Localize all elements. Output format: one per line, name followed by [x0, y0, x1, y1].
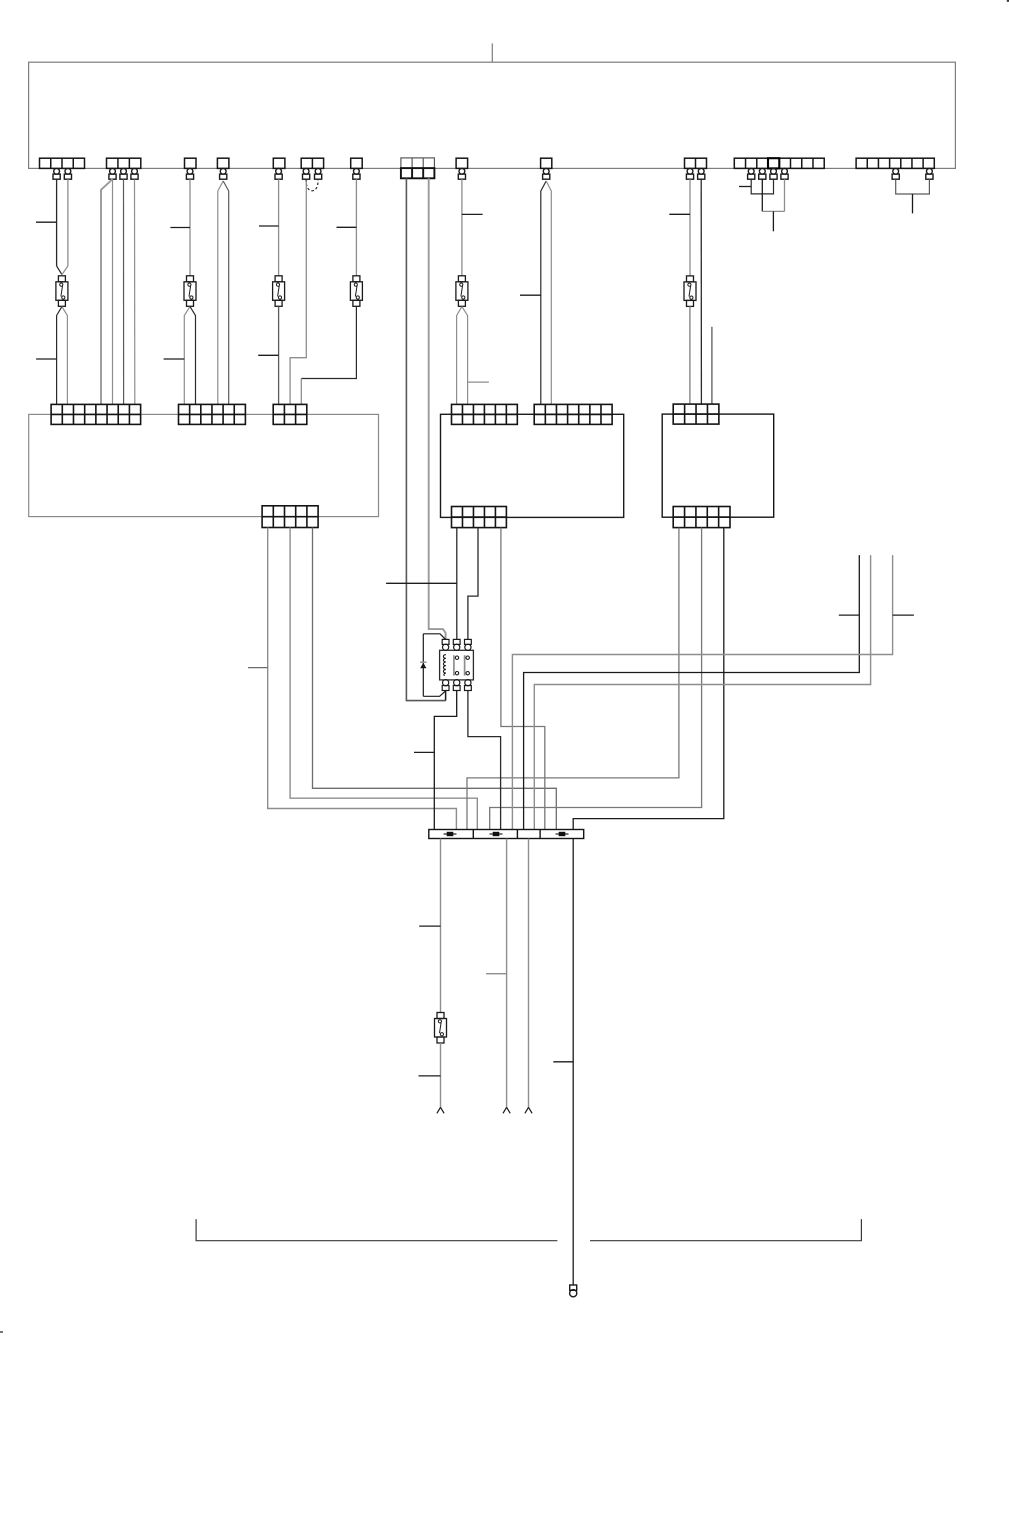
relay bottom pin 2	[453, 680, 460, 691]
relay bottom pin 3	[465, 680, 472, 691]
fusible link F1	[56, 276, 68, 307]
connector block G2 (3-way)	[107, 158, 141, 168]
pin R2-4	[892, 168, 899, 179]
relay block box 1	[29, 414, 379, 516]
ground bracket right	[590, 1219, 861, 1241]
label leader tick (F3 lower)	[258, 354, 278, 356]
relay bottom pin 1	[442, 680, 449, 691]
junction box 3	[662, 414, 774, 517]
wire D3 to junction strip	[290, 528, 477, 830]
wire G-col1 to relay pin2	[456, 528, 458, 640]
label leader tick (out4)	[553, 1061, 573, 1063]
relay contact 1	[454, 655, 459, 675]
label leader tick (feed 1)	[839, 614, 860, 616]
diode branch bottom	[423, 691, 445, 696]
label leader tick (F2 lower)	[164, 358, 185, 360]
relay pin4 bottom stub	[445, 691, 447, 701]
wire B1-1 down to relay pin4	[406, 178, 445, 700]
wire P2-2 to grid H col3	[700, 179, 702, 404]
connector grid C (3x2)	[273, 404, 307, 424]
connector grid E (6x2)	[452, 404, 518, 424]
junction box 2	[441, 414, 624, 517]
fusible link F2	[184, 276, 196, 307]
connector S3 (1-way)	[273, 158, 285, 168]
diode branch top	[423, 634, 445, 640]
wire relay pin5 to junction strip	[434, 691, 456, 830]
relay top pin 2	[453, 639, 460, 650]
R1 highlighted cavity 4	[768, 158, 779, 168]
pin P1-1	[303, 168, 310, 179]
label leader tick (out1 lower)	[419, 1075, 441, 1077]
label leader tick (out1 upper)	[419, 925, 440, 927]
relay top pin 1	[442, 639, 449, 650]
wire below F7	[440, 1043, 442, 1107]
pin S3	[275, 168, 282, 179]
pin R1-3	[759, 168, 766, 179]
wire S4 down to F4	[355, 179, 357, 276]
label leader tick (relay wire)	[414, 751, 434, 753]
label leader tick (D1)	[248, 667, 268, 669]
joint J3	[556, 832, 569, 836]
pin G1-3	[64, 168, 71, 179]
pin G2-2	[120, 168, 127, 179]
fusible link F5	[456, 276, 468, 307]
label leader tick gray (grid E)	[468, 381, 489, 383]
label leader tick (out2)	[486, 973, 507, 975]
fusible link F4	[350, 276, 362, 307]
P1 jumper loop (dashed)	[306, 179, 318, 191]
pin R1-4	[770, 168, 777, 179]
connector row R2 (7-way)	[856, 158, 934, 168]
label leader tick (S6 pair)	[520, 294, 541, 296]
pin R1-5	[781, 168, 788, 179]
splice mark 1	[437, 1107, 444, 1113]
engine room junction / fuse block (header box)	[29, 62, 956, 168]
wire P1 to grid C col2	[290, 182, 306, 405]
wire below F4 jog to grid C col3	[301, 306, 356, 378]
wire I3 to junction strip	[490, 528, 702, 830]
header box top tick	[491, 43, 493, 62]
wire relay pin6 to junction strip	[468, 691, 501, 830]
pin S1	[186, 168, 193, 179]
wire I1 to junction strip	[467, 528, 679, 830]
wire G1-3 down	[67, 179, 69, 266]
wire below F6 to grid H col2	[689, 306, 691, 404]
wire pair below F1 to grid A	[57, 307, 62, 405]
label leader tick (feed 3)	[893, 614, 914, 616]
splice mark 2	[503, 1107, 510, 1113]
pin P2-1	[686, 168, 693, 179]
pin R2-7	[926, 168, 933, 179]
wire R1 pin3 down	[761, 179, 763, 211]
stub from R1 join	[772, 211, 774, 231]
wire pair S6 to grid F	[541, 181, 546, 404]
label leader tick (F5 upper right)	[462, 213, 483, 215]
wire B1-2 down to relay pin1	[429, 178, 446, 639]
connector block B1 (3x2)	[401, 158, 435, 178]
connector S4 (1-way)	[351, 158, 363, 168]
wire S5 down to F5	[461, 179, 463, 276]
connector S1 (1-way)	[185, 158, 197, 168]
connector S5 (1-way)	[456, 158, 468, 168]
connector P2 (2-way)	[685, 158, 707, 168]
feed wire right 2	[534, 555, 870, 829]
relay top pin 3	[465, 639, 472, 650]
wire pair S2 to grid B	[218, 181, 223, 404]
wire D5 to junction strip	[313, 528, 557, 830]
label leader tick (F3 upper)	[259, 225, 279, 227]
wire strip out 3 down	[528, 839, 530, 1108]
connector grid F (7x2)	[534, 404, 612, 424]
label leader tick (F2 upper)	[170, 227, 190, 229]
label leader tick (R1)	[739, 186, 751, 188]
wire S1 down to F2	[189, 179, 191, 276]
connector grid B (6x2)	[179, 404, 246, 424]
fusible link F3	[273, 276, 285, 307]
pin S6	[543, 168, 550, 179]
wire strip out 4 (battery lead)	[572, 839, 574, 1286]
pin G2-3	[131, 168, 138, 179]
junction connector strip	[429, 830, 584, 839]
connector grid H (4x2)	[673, 404, 719, 424]
wire pair below F2 to grid B	[184, 307, 190, 405]
wire G2-1 down	[112, 179, 114, 404]
connector grid G (5x2)	[452, 507, 507, 528]
wire R1 pins 2-4 join	[751, 179, 773, 194]
page corner mark top-right	[1007, 0, 1009, 2]
relay contact 2	[465, 655, 470, 675]
pin G2-1	[109, 168, 116, 179]
feed wire right 1	[524, 555, 860, 829]
feed wire right 3	[512, 555, 892, 829]
ground bracket left	[196, 1219, 557, 1241]
connector grid D (5x2)	[262, 506, 318, 528]
wire pair converge to F1	[57, 266, 62, 275]
wire G2-2 down	[123, 179, 125, 404]
fuse F7	[435, 1013, 447, 1044]
relay U1 body	[440, 650, 474, 680]
joint J1	[444, 832, 457, 836]
label leader line (relay)	[386, 582, 457, 584]
diode D1	[420, 661, 427, 663]
joint J2	[490, 832, 503, 836]
pin S5	[458, 168, 465, 179]
wire P2-1 down to F6	[689, 179, 691, 276]
wire strip out 1 down	[440, 839, 442, 1013]
wire strip out 2 down	[506, 839, 508, 1108]
wire I5 to junction strip	[573, 528, 724, 830]
wire G2-3 down	[134, 179, 136, 404]
wire G2-1 diagonal branch	[101, 179, 113, 404]
fusible link F6	[684, 276, 696, 307]
stub from R2 join	[912, 194, 914, 213]
pin P2-2	[698, 168, 705, 179]
diode branch left wire	[422, 634, 424, 697]
label leader tick (F6 upper)	[669, 213, 690, 215]
wire G-col5 to junction strip	[501, 528, 545, 830]
wire S3 down to F3	[278, 179, 280, 276]
pin P1-2	[315, 168, 322, 179]
pin S4	[353, 168, 360, 179]
connector S6 (1-way)	[541, 158, 552, 168]
pin S2	[220, 168, 227, 179]
wire R1 pin5 down	[784, 179, 786, 211]
pin G1-2	[53, 168, 60, 179]
connector grid I (5x2)	[673, 507, 730, 528]
page edge mark bottom-left	[0, 1331, 3, 1333]
wire below F3 to grid C col1	[278, 306, 280, 404]
wire R1 pins 3-5 join	[762, 210, 784, 212]
stub wire to grid H col4	[711, 327, 713, 404]
wire R2 pins join	[896, 179, 930, 194]
wire G1-2 down	[56, 179, 58, 266]
connector block G1 (4-way)	[40, 158, 85, 168]
label leader tick (F4 upper)	[337, 226, 357, 228]
relay coil	[443, 655, 445, 676]
connector grid A (8x2)	[51, 404, 141, 424]
label leader tick (F1 lower)	[36, 358, 57, 360]
splice mark 3	[525, 1107, 532, 1113]
wire D1 to junction strip	[268, 528, 457, 830]
connector S2 (1-way)	[217, 158, 229, 168]
battery terminal	[570, 1285, 577, 1297]
wire pair below F5 to grid E	[457, 307, 462, 405]
connector row R1 (8-way)	[734, 158, 824, 168]
wire G-col3 to relay pin3	[468, 528, 478, 640]
pin R1-2	[748, 168, 755, 179]
connector P1 (2-way)	[301, 158, 323, 168]
label leader tick (F1 upper)	[36, 221, 57, 223]
